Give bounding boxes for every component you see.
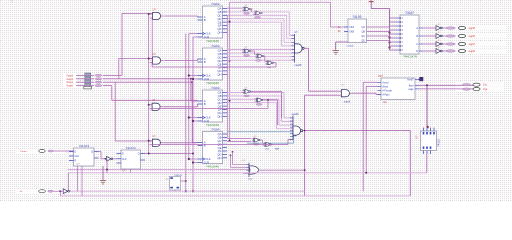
xnor gate U12A bbox=[251, 138, 261, 142]
wire U8.QC to U12A bbox=[227, 140, 251, 142]
wire net Gray1 to gate U4 in1 bbox=[115, 140, 152, 142]
net band seg2 bbox=[445, 34, 507, 39]
xnor gate U9A bbox=[242, 7, 252, 11]
input pad clk bbox=[39, 190, 46, 193]
junction clear branch bbox=[192, 120, 194, 122]
wire into U14 bottom bbox=[288, 138, 293, 140]
svg-text:Acmd: Acmd bbox=[382, 81, 389, 84]
inverter U21 bbox=[107, 156, 113, 161]
wire U9A out to U9B bbox=[250, 8, 251, 10]
wire U20 pin drop a bbox=[77, 166, 79, 191]
oneshot U19 body bbox=[421, 131, 437, 151]
xnor gate U12B bbox=[263, 142, 273, 146]
wire U19 bottom drop bbox=[426, 154, 428, 173]
junction bus2 block riser bbox=[365, 172, 367, 174]
or gate U24 bbox=[249, 163, 259, 177]
flipflop U22 body bbox=[121, 150, 141, 169]
wire U14 drop to bus bbox=[304, 131, 306, 196]
wire U8.Q0 blue run bbox=[227, 131, 296, 133]
wire into U13 input 0 bbox=[289, 34, 294, 36]
wire input row 3 to label bbox=[76, 85, 94, 87]
junction at bus y169 bbox=[106, 169, 108, 171]
ground G1 stub bbox=[335, 42, 337, 51]
wire U16.QD bbox=[367, 40, 390, 42]
inverter U23 bbox=[63, 189, 69, 194]
flipflop U20 left stubs bbox=[69, 151, 74, 153]
svg-text:Cnt: Cnt bbox=[483, 84, 487, 87]
wire U17 to inverter 0 bbox=[423, 27, 436, 29]
junction enable G4 bbox=[148, 140, 150, 142]
bus line y191.2 bbox=[71, 190, 305, 192]
wire input row 2 to label bbox=[76, 81, 94, 83]
offpage connector bbox=[419, 77, 424, 81]
wire input row 0 to label bbox=[76, 74, 94, 76]
svg-text:Q: Q bbox=[91, 152, 93, 154]
junction clk bbox=[59, 190, 61, 192]
wire inverter 2 out bbox=[442, 43, 445, 45]
junction node row Gray1 right bbox=[191, 81, 193, 83]
wire input row 3 cont bbox=[103, 85, 112, 87]
wire clock trunk vertical bbox=[188, 34, 190, 159]
wires vcc bus to U17 inputs bbox=[390, 17, 396, 19]
net oval under U10B bbox=[256, 60, 262, 62]
blue lower run bbox=[247, 142, 294, 144]
net label oval row 2 bbox=[95, 81, 102, 83]
wire vertical to U8 pin A bbox=[191, 82, 193, 142]
wire X1 out to clock trunk bbox=[181, 180, 186, 182]
output pad seg3 bbox=[458, 26, 465, 29]
wire X1 bottom stub bbox=[174, 190, 176, 191]
wire into U14 input 0 bbox=[284, 117, 293, 119]
wire U7.Q1 run bbox=[227, 95, 282, 97]
wire U16.QC bbox=[367, 35, 390, 37]
encoder U17 right pins bbox=[419, 27, 423, 29]
net oval seg3 bbox=[446, 27, 456, 29]
wire input row 0 cont bbox=[103, 74, 122, 76]
svg-text:Bctrl: Bctrl bbox=[409, 84, 414, 87]
flipflop U22 right stubs bbox=[141, 153, 146, 155]
input pad Pause bbox=[39, 150, 45, 153]
wire U20 pin drop b bbox=[81, 166, 83, 196]
net oval Cnt bbox=[462, 84, 470, 86]
output pad seg2 bbox=[458, 34, 465, 37]
and gate U4 bbox=[150, 139, 164, 146]
svg-text:nand8: nand8 bbox=[295, 64, 302, 67]
svg-text:SC?: SC? bbox=[378, 75, 383, 78]
wire U13 out bbox=[304, 47, 308, 49]
junction node row Gray2 right bbox=[190, 78, 192, 80]
wire to U19 top bbox=[426, 85, 428, 127]
wire top clock run bbox=[230, 1, 331, 3]
feedback row2 long run bbox=[152, 66, 276, 68]
wire U17 to inverter 3 bbox=[423, 50, 436, 52]
oscillator X1 pins bbox=[170, 177, 179, 188]
wire U14 riser to U15 bbox=[304, 95, 306, 130]
wire Pause to U20 bbox=[54, 150, 74, 152]
input port Gray3 bbox=[63, 74, 77, 78]
net oval seg2 bbox=[446, 35, 456, 37]
wire enable stub U3 in1 bbox=[149, 104, 152, 106]
wire staircase3 drop 2 bbox=[278, 99, 280, 125]
and gate U3 bbox=[149, 103, 163, 110]
wire U2 out to U6.A bbox=[165, 60, 198, 62]
wire U3 out to U7.B bbox=[163, 106, 197, 108]
wire into U7 pin A bbox=[191, 100, 198, 102]
wire QH drop to U24 bbox=[230, 155, 232, 167]
nand8 gate U14 bbox=[293, 116, 303, 140]
junction clear takeoff bbox=[192, 153, 194, 155]
input port Gray2 bbox=[63, 77, 77, 81]
wire U5.QA to U9A bbox=[227, 7, 242, 9]
and gate U1 bbox=[150, 12, 164, 19]
wire clock branch bbox=[189, 33, 198, 35]
ground symbol G2 bbox=[100, 180, 106, 184]
wire staircase drop 0 bbox=[288, 12, 290, 35]
svg-text:xnor: xnor bbox=[265, 148, 270, 151]
clk net band bbox=[16, 189, 66, 193]
wire U6.Q2 to U13 bbox=[227, 56, 295, 58]
bus line y195.9 bbox=[60, 195, 410, 197]
oneshot U19 bottom stubs bbox=[423, 151, 425, 155]
and gate U2 bbox=[150, 57, 164, 64]
wire U11A drop bbox=[281, 92, 283, 118]
bus line y172.8 bbox=[68, 172, 427, 174]
wire U15 out to block bbox=[353, 92, 376, 94]
wire U10A to U10B bbox=[251, 50, 254, 52]
wire block in2 riser bbox=[365, 86, 367, 172]
ground G2 stub bbox=[102, 166, 104, 180]
wire clear branch bbox=[193, 120, 198, 122]
wire staircase3 drop 3 bbox=[276, 103, 278, 129]
wire U10B to U10C bbox=[263, 55, 266, 57]
wire right trunk down bbox=[409, 131, 411, 196]
svg-text:fsm: fsm bbox=[383, 101, 387, 104]
nand U14 input stubs bbox=[290, 117, 293, 119]
junction vcc bus 0 bbox=[388, 31, 390, 33]
net oval under U10A bbox=[244, 55, 250, 57]
junction U20 out bbox=[104, 158, 106, 160]
svg-text:74LS74: 74LS74 bbox=[125, 146, 136, 150]
junction vcc bus 3 bbox=[388, 46, 390, 48]
wire U7.Q0 run bbox=[227, 92, 284, 94]
svg-text:Gray0: Gray0 bbox=[66, 85, 73, 88]
xnor gate U9B bbox=[253, 11, 263, 15]
junction U19 top bbox=[427, 126, 429, 128]
oscillator X1 body bbox=[170, 177, 181, 191]
junction osc trunk at bus bbox=[185, 190, 187, 192]
svg-text:Q: Q bbox=[138, 154, 140, 156]
wire into U13 input 2 bbox=[284, 41, 295, 43]
svg-text:AmdT: AmdT bbox=[407, 78, 414, 81]
counter U16 left pins bbox=[344, 26, 348, 28]
svg-text:74HC147N: 74HC147N bbox=[403, 55, 417, 59]
svg-text:A Pgm: A Pgm bbox=[382, 94, 389, 97]
junction enable G3 bbox=[148, 104, 150, 106]
net oval under U9B bbox=[255, 17, 261, 19]
wire U1 out to U5.A bbox=[165, 15, 198, 17]
svg-text:CKA: CKA bbox=[349, 26, 354, 29]
junction clear branch bbox=[192, 78, 194, 80]
svg-text:Cya: Cya bbox=[483, 88, 488, 91]
junction enable takeoff bbox=[148, 153, 150, 155]
wire net Gray0 to U7.A row bbox=[112, 99, 198, 101]
svg-text:cage: cage bbox=[408, 88, 414, 91]
junction U14 riser bbox=[304, 130, 306, 132]
wire net Gray3 vertical bbox=[121, 14, 123, 76]
wire block in1 riser bbox=[362, 82, 364, 191]
blue into U14 bbox=[293, 135, 296, 137]
junction vcc bus 1 bbox=[388, 36, 390, 38]
inverter U18a bbox=[436, 26, 442, 31]
junction enable G2 bbox=[148, 58, 150, 60]
wire U7.Q3 run bbox=[227, 102, 277, 104]
svg-text:74L93: 74L93 bbox=[353, 15, 362, 19]
net oval under U9A bbox=[244, 13, 250, 15]
wire into U14 input 2 bbox=[279, 124, 293, 126]
wire U11A out right bbox=[252, 91, 282, 93]
wire U7.Q2 run bbox=[227, 98, 279, 100]
net oval Cya bbox=[462, 88, 470, 90]
output pad seg1 bbox=[458, 42, 465, 45]
wire U22.Q to trunks bbox=[145, 153, 193, 155]
wire inverter 0 out bbox=[442, 27, 445, 29]
wire clock branch bbox=[189, 75, 198, 77]
wire U16.QA bbox=[367, 26, 390, 28]
wire inter-register vertical B bbox=[229, 2, 231, 140]
encoder U17 left pins bbox=[396, 17, 401, 19]
wire inverter 3 out bbox=[442, 50, 445, 52]
connector J1 base bbox=[84, 86, 92, 89]
net band Cnt bbox=[455, 82, 503, 87]
wire staircase3 drop 0 bbox=[283, 93, 285, 118]
connector J1 body bbox=[85, 73, 91, 88]
feedback row4 into U4 bbox=[152, 143, 154, 145]
svg-text:seg2Z: seg2Z bbox=[469, 36, 476, 38]
junction clock branch bbox=[188, 158, 190, 160]
flipflop U20 right stubs bbox=[94, 151, 99, 153]
wire clk drop bbox=[59, 191, 61, 196]
net oval seg1 bbox=[446, 43, 456, 45]
oneshot U19 inner marks bbox=[423, 132, 435, 149]
wire into U14 input 1 bbox=[282, 121, 294, 123]
wire U13 trunk down bbox=[308, 48, 310, 91]
block SC1 body bbox=[381, 78, 415, 100]
wire U4 out to U8.A bbox=[164, 142, 198, 144]
wire into U13 input 1 bbox=[287, 38, 295, 40]
wire clk to inverter bbox=[53, 190, 63, 192]
svg-text:CLK: CLK bbox=[122, 159, 127, 161]
feedback row2 from U10C bbox=[274, 62, 276, 64]
net oval clk bbox=[48, 190, 54, 192]
inverter U18c bbox=[436, 42, 442, 47]
wire clock into U16 bbox=[330, 2, 332, 27]
connector J1 pin marks bbox=[85, 75, 90, 86]
wire inverter 1 out bbox=[442, 35, 445, 37]
wire net Gray1 vertical bbox=[114, 82, 116, 141]
net oval under U11A bbox=[244, 95, 250, 97]
wire U6.Q1 to U13 bbox=[227, 52, 295, 54]
wire inter-register vertical A bbox=[227, 15, 229, 137]
wire U20.Q bend bbox=[99, 151, 102, 153]
wire bus left corner bbox=[67, 173, 69, 191]
wire staircase drop 2 bbox=[283, 19, 285, 43]
svg-text:nand8: nand8 bbox=[292, 113, 299, 116]
junction U8.QH tap bbox=[230, 154, 232, 156]
svg-text:74LS74: 74LS74 bbox=[79, 144, 90, 148]
wire enable net vertical bbox=[148, 14, 150, 154]
wire staircase3 drop 1 bbox=[281, 96, 283, 122]
junction clock branch bbox=[188, 116, 190, 118]
svg-text:74147: 74147 bbox=[405, 11, 414, 15]
wire QG drop to U24 bbox=[232, 152, 234, 164]
input port Gray0 bbox=[63, 84, 77, 88]
flipflop U22 left stubs bbox=[117, 153, 122, 155]
junction U8.QG tap bbox=[232, 151, 234, 153]
svg-text:D: D bbox=[416, 50, 418, 53]
flipflop U20 body bbox=[74, 148, 95, 166]
wire clear branch bbox=[193, 162, 198, 164]
junction U14 bus1 bbox=[304, 169, 306, 171]
junction vcc bus 2 bbox=[388, 41, 390, 43]
wire U5.Q1 run bbox=[227, 11, 289, 13]
wire block out2 bbox=[419, 84, 474, 86]
ground symbol G1 bbox=[333, 51, 340, 55]
net label oval row 3 bbox=[95, 85, 102, 87]
svg-text:A Pmode: A Pmode bbox=[382, 90, 392, 93]
svg-text:Pause: Pause bbox=[20, 151, 27, 153]
svg-text:seg1Z: seg1Z bbox=[469, 44, 476, 46]
oneshot U19 top stubs bbox=[423, 128, 425, 132]
net oval Pause bbox=[48, 150, 54, 152]
wire clock branch bbox=[189, 158, 198, 160]
svg-text:QD: QD bbox=[361, 40, 365, 43]
nand U13 input stubs bbox=[292, 34, 295, 36]
encoder U17 74147 body bbox=[400, 15, 419, 54]
wire U23 out to bus bbox=[70, 190, 71, 192]
junction U7.QD tap bbox=[229, 100, 231, 102]
svg-text:march: march bbox=[344, 101, 351, 104]
block SC1 left stubs bbox=[378, 81, 382, 83]
shift register U6 74164 bbox=[198, 44, 228, 85]
junction U5.QE tap bbox=[229, 21, 231, 23]
nand8 gate U13 bbox=[295, 34, 305, 63]
wire staircase drop 1 bbox=[286, 15, 288, 38]
encoder U17 pin dots bbox=[400, 17, 402, 19]
output pad seg0 bbox=[458, 49, 465, 52]
wire U11B drop bbox=[276, 100, 278, 125]
svg-text:CLK: CLK bbox=[75, 156, 80, 158]
feedback row3 riser bbox=[267, 100, 269, 109]
wire U16.QB bbox=[367, 31, 390, 33]
wire net Gray3 to gate U1 in1 bbox=[122, 13, 153, 15]
wire U5.Q2 run bbox=[227, 14, 287, 16]
bus line y169.5 left bbox=[68, 169, 250, 171]
vcc symbol bbox=[369, 0, 374, 3]
svg-text:wait: wait bbox=[275, 147, 280, 150]
wire U5.Q4 run bbox=[227, 21, 282, 23]
wire U17 to inverter 1 bbox=[423, 35, 436, 37]
wire staircase drop 3 bbox=[281, 22, 283, 46]
wire U22 bottom stub bbox=[130, 169, 132, 173]
junction clear branch bbox=[192, 161, 194, 163]
wire down to bus bbox=[106, 159, 108, 173]
wire U21 out bbox=[113, 158, 117, 160]
junction row3 bbox=[267, 99, 269, 101]
svg-text:QC: QC bbox=[361, 35, 365, 38]
wire U8.QB to U12A bbox=[227, 138, 251, 140]
junction clear trunk at bus bbox=[192, 190, 194, 192]
net oval under U12A bbox=[253, 143, 259, 145]
net band seg3 bbox=[445, 26, 507, 31]
wire U14 out bbox=[303, 130, 411, 132]
pause net band bbox=[16, 149, 66, 154]
xnor gate U11A bbox=[242, 89, 252, 93]
net band Cya bbox=[455, 87, 503, 92]
wire net Gray0 vertical bbox=[111, 86, 113, 101]
shift register U5 74164 bbox=[198, 2, 228, 43]
wire net Gray2 vertical bbox=[118, 59, 120, 79]
wire clock branch bbox=[189, 117, 198, 119]
wire U14 to U15 in2 bbox=[305, 94, 339, 96]
wire net Gray2 to gate U2 in1 bbox=[119, 58, 153, 60]
junction enable G1 bbox=[148, 13, 150, 15]
input port Gray1 bbox=[63, 81, 77, 85]
xnor gate U11B bbox=[254, 98, 264, 102]
svg-text:QB: QB bbox=[362, 31, 366, 34]
counter U16 74L93 body bbox=[348, 19, 367, 43]
shift register U8 74164 bbox=[198, 128, 228, 169]
svg-text:wait: wait bbox=[248, 178, 252, 181]
svg-text:seg3Z: seg3Z bbox=[469, 28, 476, 30]
svg-text:C: C bbox=[416, 43, 418, 46]
wire U24 out bbox=[259, 169, 305, 171]
and gate U15 bbox=[339, 90, 353, 97]
wire into U14 input 3 bbox=[277, 128, 294, 130]
or gate U24 input stubs bbox=[247, 163, 250, 165]
net oval under U11B bbox=[256, 104, 262, 106]
junction U6.QD tap bbox=[229, 60, 231, 62]
svg-text:CKB: CKB bbox=[349, 31, 354, 34]
wire U24 in4 bbox=[243, 172, 249, 174]
output pad Cnt bbox=[473, 83, 480, 86]
shift register U7 74164 bbox=[198, 86, 228, 127]
svg-text:74S124: 74S124 bbox=[174, 175, 182, 177]
wire U6.Q0 to U13 bbox=[227, 49, 295, 51]
inverter U18b bbox=[436, 34, 442, 39]
junction U8.QD tap bbox=[229, 140, 231, 142]
wire into U8 pin A bbox=[192, 142, 197, 144]
inverter U18d bbox=[436, 49, 442, 54]
wire U13 to U15 in1 bbox=[309, 90, 339, 92]
wire vcc bus vertical bbox=[389, 9, 391, 51]
svg-text:QA: QA bbox=[362, 26, 366, 29]
wire clear branch bbox=[193, 78, 198, 80]
blue riser bbox=[293, 132, 295, 144]
net oval seg0 bbox=[446, 50, 456, 52]
feedback row4 long run bbox=[152, 143, 272, 145]
xnor gate U10A bbox=[242, 49, 252, 53]
output pad Cya bbox=[473, 88, 480, 91]
wire into U13 input 3 bbox=[282, 45, 295, 47]
net label oval row 1 bbox=[95, 78, 102, 80]
wire U1 in2 drop bbox=[151, 18, 153, 67]
net band seg0 bbox=[445, 49, 507, 54]
wire U6.Q3 to U13 bbox=[227, 59, 295, 61]
wire vertical to U7 pin A bbox=[190, 79, 192, 101]
xnor gate U10C bbox=[265, 61, 275, 65]
wire block out3 bbox=[419, 88, 474, 90]
junction X1 out bbox=[185, 180, 187, 182]
